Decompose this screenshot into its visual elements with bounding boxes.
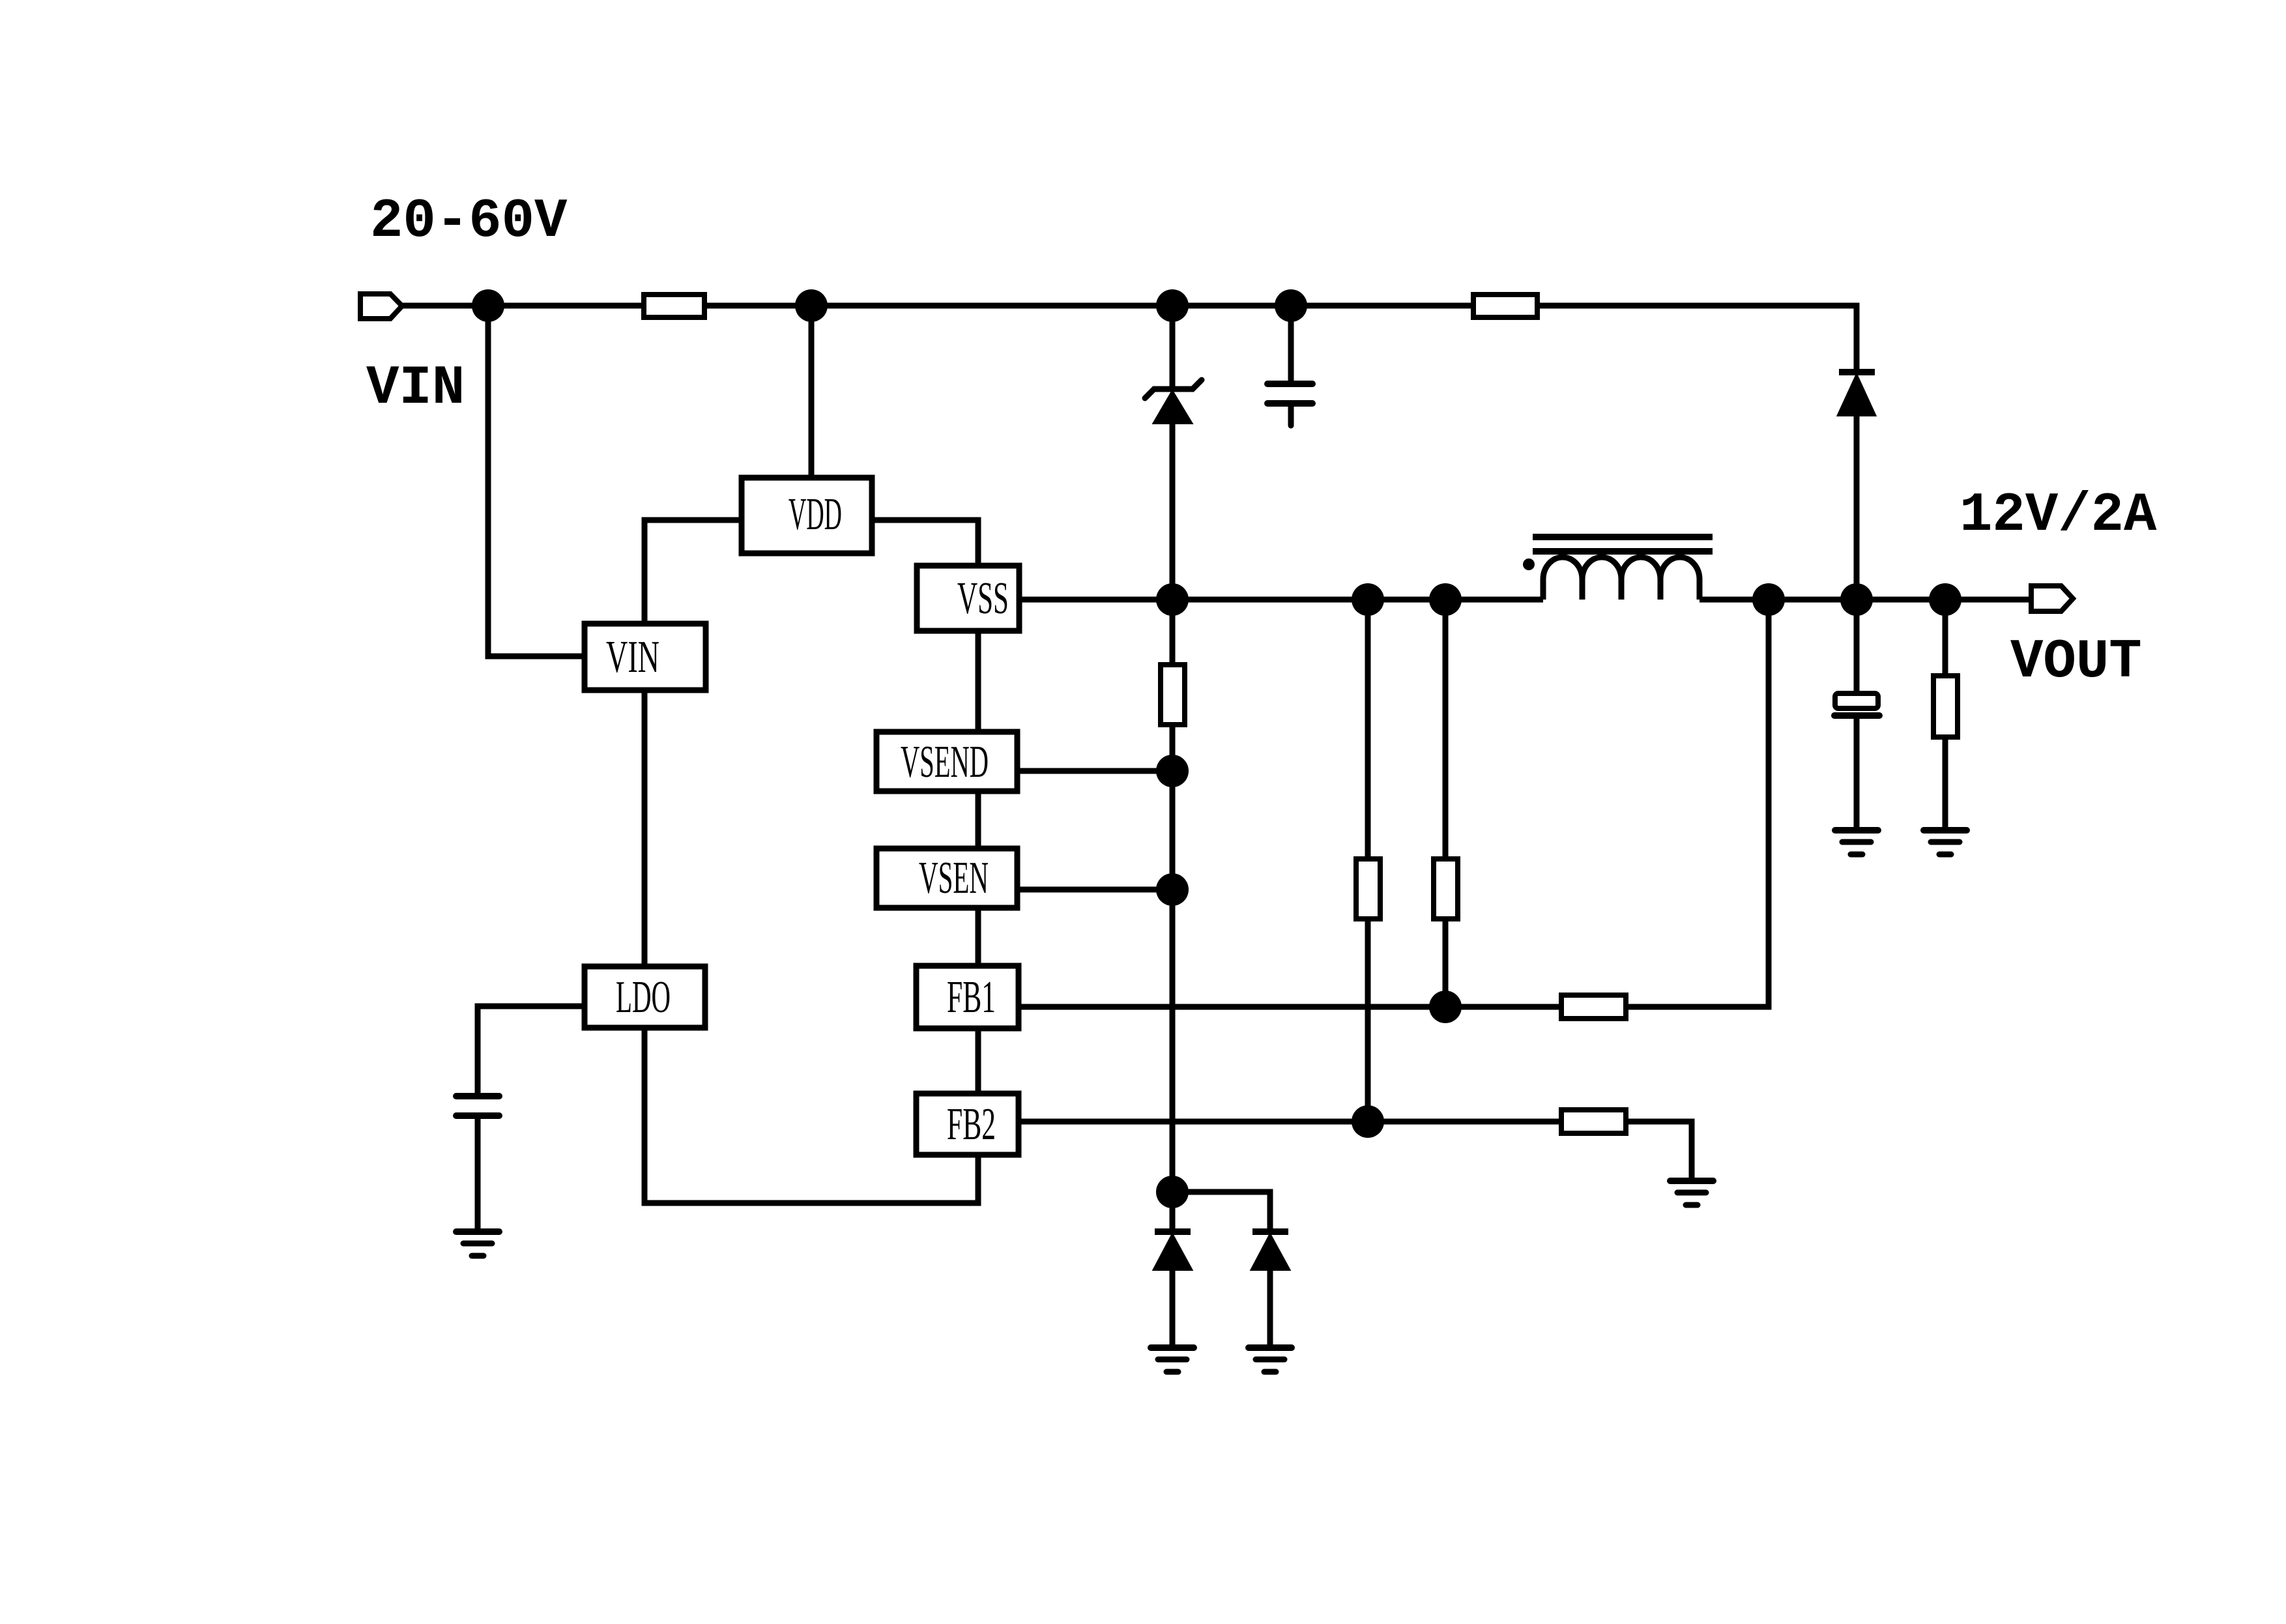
ground GND5 — [1835, 830, 1878, 854]
junction JB — [1429, 583, 1462, 616]
block VDD pin box — [742, 478, 872, 553]
resistor R5 — [1561, 995, 1626, 1019]
capacitor C3 — [1267, 384, 1312, 403]
wire R4a down to J9 — [1365, 919, 1371, 1122]
ground GND4 — [1249, 1348, 1292, 1372]
junction J10a — [1752, 583, 1785, 616]
wire VSEN right pin to J7 — [1017, 887, 1172, 893]
wire D3 to ground GND4 — [1267, 1269, 1273, 1346]
wire J11 right to diode D3 — [1172, 1192, 1270, 1230]
wire C1 to ground — [475, 1119, 481, 1230]
wire J10b down to capacitor C2 — [1854, 600, 1860, 694]
wire J5 down to resistor R3 — [1170, 600, 1176, 665]
wire R6 to ground GND2 — [1626, 1122, 1692, 1180]
svg-text:12V/2A: 12V/2A — [1960, 485, 2157, 547]
svg-text:VOUT: VOUT — [2010, 631, 2142, 693]
junction J3 — [1156, 289, 1189, 322]
svg-text:FB1: FB1 — [947, 972, 996, 1022]
junction J11 — [1156, 1176, 1189, 1208]
wire LDO bottom to FB2 bottom — [644, 1028, 978, 1203]
diode D2 — [1154, 1232, 1191, 1269]
zener diode Z1 — [1145, 380, 1202, 423]
wire VDD left pin to VIN top — [644, 520, 742, 624]
wire R3 down through J6 J7 to J11 — [1170, 725, 1176, 1192]
wire R4b down to J8 — [1443, 919, 1449, 1007]
wire J11 to diode D2 — [1170, 1192, 1176, 1230]
resistor R4a — [1356, 859, 1380, 919]
wire VIN rail right to diode D1 — [1537, 306, 1857, 372]
transformer T1 primary winding — [1543, 557, 1700, 600]
wire J10c down to resistor R7 — [1943, 600, 1948, 676]
diode D3 — [1252, 1232, 1289, 1269]
wire VSEND bottom to VSEN top — [976, 791, 981, 848]
wire transformer to output tag — [1700, 597, 2031, 603]
ground GND6 — [1924, 830, 1967, 854]
resistor R1 — [644, 295, 704, 317]
diode D1 — [1838, 372, 1875, 415]
svg-text:FB2: FB2 — [947, 1099, 996, 1150]
svg-text:VSS: VSS — [957, 573, 1009, 624]
wire J4 down to capacitor C3 — [1288, 306, 1294, 382]
wire VSS rail (VSS box to transformer) — [1019, 597, 1543, 603]
block FB2 pin box — [916, 1094, 1019, 1155]
transformer T1 core — [1533, 537, 1713, 551]
junction J4 — [1275, 289, 1307, 322]
resistor R3 — [1161, 665, 1185, 725]
wire VIN bottom to LDO top — [642, 690, 648, 966]
resistor R6 — [1561, 1110, 1626, 1133]
wire D1 to output node — [1854, 415, 1860, 600]
ground GND3 — [1151, 1348, 1194, 1372]
junction J9 — [1352, 1105, 1384, 1138]
output port tag VOUT — [2031, 586, 2073, 611]
svg-text:VSEN: VSEN — [919, 853, 989, 903]
wire VSEN bottom to FB1 top — [976, 908, 981, 966]
junction J1 — [472, 289, 504, 322]
wire J2 down to VDD top — [809, 306, 815, 478]
ground GND2 — [1670, 1181, 1713, 1205]
wire C2 to ground GND5 — [1854, 719, 1860, 829]
ground GND1 — [456, 1232, 499, 1256]
block VSEN pin box — [876, 848, 1017, 908]
block VSEND pin box — [876, 732, 1017, 791]
wire LDO left pin to capacitor C1 — [478, 1006, 585, 1094]
junction J2 — [795, 289, 828, 322]
wire FB1 bottom to FB2 top — [976, 1028, 981, 1094]
svg-text:VDD: VDD — [789, 489, 842, 540]
junction J7 — [1156, 873, 1189, 906]
wire VSS bottom to VSEND top — [976, 631, 981, 732]
block FB1 pin box — [916, 966, 1019, 1028]
wire JA down to resistor R4a — [1365, 600, 1371, 859]
wire Z1 to VSS rail junction J5 — [1170, 423, 1176, 600]
capacitor C1 — [456, 1096, 499, 1116]
junction J8 — [1429, 991, 1462, 1023]
wire R5 up to output node J10a — [1626, 600, 1769, 1007]
svg-text:LDO: LDO — [616, 972, 671, 1022]
wire FB2 right pin to resistor R6 — [1019, 1119, 1561, 1125]
block VIN pin box — [585, 624, 706, 690]
wire JB down to resistor R4b — [1443, 600, 1449, 859]
resistor R4b — [1434, 859, 1458, 919]
svg-text:VSEND: VSEND — [901, 737, 989, 787]
junction J6 — [1156, 755, 1189, 787]
resistor R7 — [1933, 676, 1958, 737]
junction J10b — [1840, 583, 1873, 616]
capacitor C2 polarized — [1834, 693, 1879, 716]
wire R7 to ground GND6 — [1943, 737, 1948, 829]
wire J3 down to zener Z1 — [1170, 306, 1176, 389]
junction JA — [1352, 583, 1384, 616]
wire VDD right pin to VSS top — [872, 520, 978, 566]
svg-text:VIN: VIN — [606, 632, 659, 682]
block VSS pin box — [917, 566, 1019, 631]
wire VIN rail middle — [704, 303, 1473, 309]
wire D2 to ground GND3 — [1170, 1269, 1176, 1346]
wire VIN rail left — [402, 303, 644, 309]
svg-text:20-60V: 20-60V — [370, 191, 568, 253]
junction J5 — [1156, 583, 1189, 616]
input port tag VIN — [360, 294, 402, 319]
wire FB1 right pin to resistor R5 — [1019, 1004, 1561, 1010]
resistor R2 — [1473, 295, 1537, 317]
wire J1 down to VIN box — [488, 306, 585, 656]
svg-text:VIN: VIN — [366, 358, 465, 420]
wire VSEND right pin to J6 — [1017, 768, 1172, 774]
transformer T1 phase dot — [1523, 558, 1535, 570]
junction J10c — [1929, 583, 1961, 616]
block LDO pin box — [585, 966, 705, 1028]
capacitor C3 bottom stub — [1288, 403, 1294, 426]
